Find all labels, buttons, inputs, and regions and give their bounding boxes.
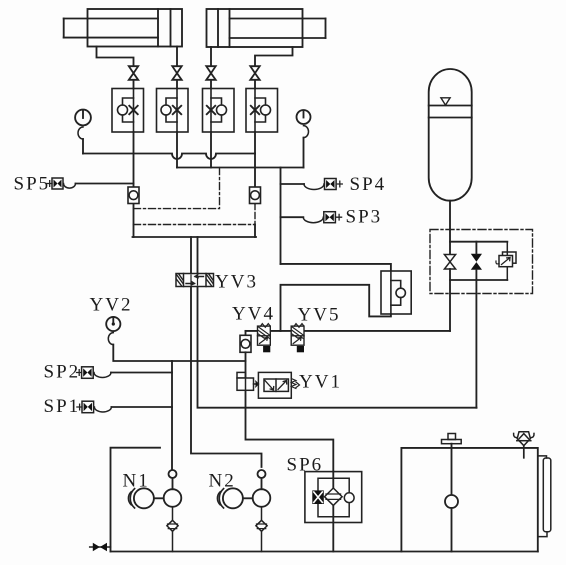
pressure switch SP1 symbol (77, 401, 94, 413)
dashed pilot line D2 (134, 224, 256, 226)
wire SV1 to valve block 1 (133, 80, 135, 88)
SP6 box enclosure (305, 472, 362, 523)
svg-text:YV3: YV3 (215, 272, 258, 293)
solenoid valve YV1 with solenoid box (237, 372, 300, 398)
pressure gauge PG1 (left) (75, 110, 91, 126)
pressure switch SP3 symbol (324, 212, 342, 223)
pressure switch SP6 symbol (312, 490, 324, 504)
pressure switch SP4 symbol (325, 179, 343, 190)
wire CYL1 rod-side port to shutoff valve 1 (97, 47, 134, 66)
svg-text:SP1: SP1 (44, 396, 81, 417)
bottom main line (111, 551, 538, 553)
solenoid cartridge valve YV5 (291, 324, 304, 353)
pilot check valve block V1 (112, 89, 144, 133)
shutoff valve VA (open bowtie) (444, 255, 455, 270)
wire CYL1 head-side port down to shutoff valve 2 (176, 47, 178, 66)
wire YV3 left line (pump2 delivery) (191, 237, 262, 467)
pressure gauge PG2 (right) (297, 110, 311, 124)
manifold wire y=237 (133, 236, 257, 238)
wire bowtie A line through box (449, 230, 451, 255)
wire header down into check box CB3 (245, 331, 247, 335)
wire VA down to YV4/YV5 header (449, 269, 451, 331)
shutoff valve SV3 (bowtie) (206, 66, 215, 80)
wire SP1 to pump1 riser (111, 406, 172, 408)
wire supply drop x=280.5 from manifold (280, 168, 282, 264)
tank filler cap (442, 434, 462, 444)
hose squiggle left of SP3 (303, 217, 323, 222)
motor M2 with coupling arcs (217, 488, 242, 508)
cylinder CYL2 (right, rod to right) (207, 9, 326, 47)
wire V3 drop to manifold (210, 132, 212, 168)
small gauge circle in SP6 box (344, 493, 354, 503)
gauge line with hops over V2,V3 drops (83, 154, 255, 160)
dashed enclosure box (430, 230, 533, 294)
hose squiggle under YV2 gauge (108, 333, 113, 345)
pressure switch SP2 symbol (77, 367, 94, 379)
wire V4 line down through check box CB2 (254, 154, 256, 204)
wire SV3 to valve block 3 (210, 80, 212, 88)
drain valve (closed bowtie) on stub (90, 543, 111, 551)
cylinder CYL1 (left, rod to left) (64, 9, 182, 47)
pump P1 (154, 489, 181, 507)
filter diamond in SP6 box (325, 488, 343, 505)
solenoid cartridge valve YV4 (258, 324, 271, 353)
shutoff valve VB (closed bowtie) (471, 254, 482, 270)
wire CB3 down through YV1 solenoid to SP6 feed (246, 352, 334, 471)
wire VB down to return line (475, 280, 477, 408)
hose squiggle right of SP1 (94, 407, 111, 412)
wire VB line (475, 242, 477, 280)
check box CB3 (pilot check valve) (240, 335, 251, 352)
wire dashed-box top link (450, 241, 507, 243)
side level gauge on tank (538, 456, 551, 537)
svg-text:YV1: YV1 (299, 372, 342, 393)
wire SP5 to V1 line (76, 183, 134, 185)
dashed pilot segment below CB2 (254, 204, 256, 225)
manifold wire y=167.5 (177, 167, 304, 169)
dashed pilot line D1 (134, 168, 220, 209)
suction frame L (111, 448, 161, 552)
wire supply to check box CB4 (281, 264, 391, 271)
wire V2 drop to manifold (176, 132, 178, 168)
svg-text:SP2: SP2 (44, 362, 81, 383)
svg-text:YV2: YV2 (90, 295, 133, 316)
wire accumulator to dashed box (449, 201, 451, 230)
svg-text:SP4: SP4 (350, 174, 387, 195)
wire SV2 to valve block 2 (176, 80, 178, 88)
solenoid valve YV3 (horizontal) (176, 274, 214, 287)
motor M1 with coupling arcs (128, 488, 153, 508)
wire dashed-box bottom link (450, 279, 507, 281)
hose squiggle right of SP5 (64, 184, 76, 189)
wire pump1 riser (171, 361, 173, 470)
hose squiggle under PG2 (304, 126, 309, 138)
svg-text:SP6: SP6 (287, 455, 324, 476)
svg-text:YV4: YV4 (232, 304, 275, 325)
check box CB2 (pilot check valve) (250, 187, 261, 204)
wire CB4 outlet back to supply drop (281, 285, 391, 331)
wire PG2 down to manifold (303, 138, 305, 168)
wire SP2 to pump1 riser (111, 372, 172, 374)
pressure switch SP5 symbol (47, 178, 63, 189)
svg-text:SP3: SP3 (346, 207, 383, 228)
wire V1 line down through check box CB1 (133, 132, 135, 237)
SP6 bypass loop (318, 478, 349, 517)
gauge YV2 assembly (106, 317, 120, 331)
pilot check valve block V3 (203, 89, 235, 133)
pump P2 outlet circle (258, 470, 266, 489)
svg-text:SP5: SP5 (14, 174, 51, 195)
wire CYL2 rod-side port to shutoff valve 4 (255, 47, 293, 66)
wire CYL2 head-side port down to shutoff valve 3 (210, 47, 212, 66)
pilot check valve block V4 (246, 89, 278, 133)
suction filter F1 (diamond) (167, 507, 178, 552)
relief valve RV (496, 242, 516, 280)
hose squiggle under PG1 (78, 127, 83, 139)
wire SP4 to supply drop (281, 183, 305, 185)
wire YV3 right line down to return (198, 237, 477, 408)
wire SV4 to valve block 4 (254, 80, 256, 88)
wire SP6 main line through box (332, 472, 334, 552)
tank outline (401, 448, 537, 552)
wire YV2 gauge down and pump1 header (113, 345, 245, 361)
manifold wire y=330.9 (YV4/YV5 header) (246, 330, 451, 332)
check box CB1 (pilot check valve) (128, 187, 139, 204)
shutoff valve SV1 (bowtie) (129, 66, 138, 80)
check box CB4 (check valve block) (381, 271, 411, 314)
hose squiggle right of SP2 (94, 373, 111, 378)
wire V4 drop junction up (254, 132, 256, 154)
pump P1 outlet circle (169, 470, 177, 489)
svg-text:N1: N1 (123, 471, 150, 492)
breather on tank top (514, 432, 534, 458)
tank internal suction pipe with circle (445, 444, 458, 552)
suction filter F2 (diamond) (256, 507, 267, 552)
shutoff valve SV2 (bowtie) (172, 66, 181, 80)
pilot check valve block V2 (157, 89, 189, 133)
shutoff valve SV4 (bowtie) (250, 66, 259, 80)
svg-text:N2: N2 (209, 471, 236, 492)
wire SP3 to supply drop (281, 216, 304, 218)
accumulator ACC (429, 69, 472, 201)
wire PG1 down to gauge line (82, 139, 84, 154)
hose squiggle left of SP4 (304, 184, 324, 190)
wire CB2 to manifold237 (254, 225, 256, 238)
svg-text:YV5: YV5 (298, 305, 341, 326)
pump P2 (243, 489, 270, 507)
